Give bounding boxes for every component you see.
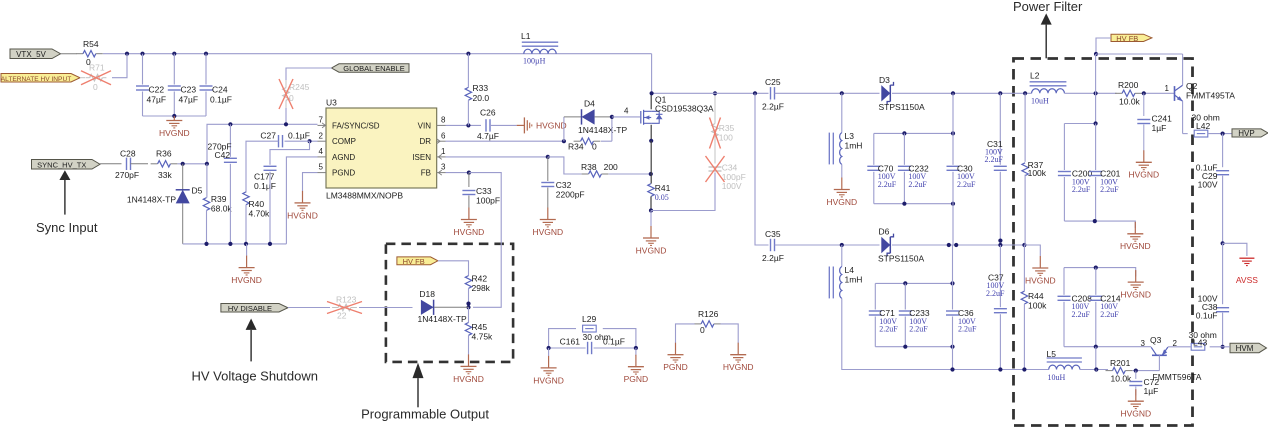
junction — [649, 139, 653, 143]
wire — [1095, 370, 1097, 371]
diode D18 1N4148X-TP — [421, 300, 434, 315]
svg-text:2.2uF: 2.2uF — [1100, 185, 1119, 194]
svg-text:270pF: 270pF — [115, 170, 139, 180]
svg-text:22: 22 — [337, 311, 347, 321]
svg-text:0: 0 — [592, 142, 597, 152]
wire — [183, 243, 287, 245]
svg-text:PGND: PGND — [332, 169, 355, 178]
wire — [650, 211, 652, 227]
wire — [1063, 302, 1065, 347]
junction — [649, 172, 653, 176]
ground HVGND — [1135, 270, 1137, 282]
pin 2 stub — [318, 140, 327, 142]
capacitor C232 — [898, 165, 911, 167]
wire — [1182, 101, 1184, 133]
pin 7 stub — [318, 124, 327, 126]
svg-text:10uH: 10uH — [1031, 97, 1049, 106]
svg-text:C241: C241 — [1152, 114, 1173, 124]
svg-text:3: 3 — [1141, 339, 1146, 348]
capacitor C28 — [126, 158, 128, 170]
svg-text:R41: R41 — [655, 183, 671, 193]
inductor L4 — [840, 267, 842, 299]
svg-text:HV Voltage Shutdown: HV Voltage Shutdown — [192, 369, 318, 384]
svg-text:C177: C177 — [254, 172, 275, 182]
junction — [172, 114, 176, 118]
wire — [874, 203, 953, 205]
wire — [1064, 346, 1151, 348]
svg-text:STPS1150A: STPS1150A — [879, 102, 925, 112]
svg-text:HVGND: HVGND — [532, 227, 563, 237]
junction — [950, 281, 954, 285]
port HV FB (prog) — [397, 257, 438, 265]
transistor Q3 FMMT596TA — [1152, 354, 1167, 356]
capacitor C241 — [1143, 93, 1145, 116]
svg-text:HVGND: HVGND — [826, 197, 857, 207]
svg-text:C33: C33 — [476, 186, 492, 196]
svg-text:HVGND: HVGND — [231, 275, 262, 285]
junction — [546, 155, 550, 159]
capacitor C71 — [869, 310, 882, 312]
wire — [103, 53, 652, 55]
junction — [1221, 345, 1225, 349]
svg-text:0.1µF: 0.1µF — [288, 131, 310, 141]
svg-text:L3: L3 — [845, 131, 855, 141]
svg-text:FB: FB — [421, 169, 431, 178]
wire — [142, 54, 144, 85]
svg-text:0.1µF: 0.1µF — [603, 337, 625, 347]
inductor L29 (ferrite bead) — [583, 325, 597, 332]
junction — [547, 346, 551, 350]
svg-text:0.1uF: 0.1uF — [1196, 311, 1218, 321]
svg-text:5: 5 — [319, 163, 324, 172]
svg-text:1µF: 1µF — [1152, 123, 1167, 133]
wire — [875, 282, 952, 284]
ground HVGND — [1143, 150, 1145, 162]
svg-text:2.2uF: 2.2uF — [985, 155, 1004, 164]
wire — [1064, 92, 1116, 94]
svg-text:4.70k: 4.70k — [249, 209, 271, 219]
capacitor C32 — [547, 157, 549, 181]
pin 3 stub — [437, 172, 446, 174]
svg-text:HVGND: HVGND — [1120, 409, 1151, 419]
svg-text:HVGND: HVGND — [454, 227, 485, 237]
svg-text:2.2uF: 2.2uF — [879, 325, 898, 334]
svg-text:R35: R35 — [719, 123, 735, 133]
wire — [650, 125, 652, 141]
svg-text:LM3488MMX/NOPB: LM3488MMX/NOPB — [326, 191, 403, 201]
diode D4 1N4148X-TP — [582, 109, 595, 124]
junction — [902, 202, 906, 206]
wire — [285, 140, 310, 142]
svg-text:C24: C24 — [212, 85, 228, 95]
wire — [611, 117, 613, 141]
wire — [1208, 133, 1232, 135]
wire — [651, 54, 653, 94]
wire — [1063, 177, 1065, 221]
wire — [904, 283, 906, 309]
svg-text:C32: C32 — [556, 180, 572, 190]
junction — [1094, 91, 1098, 95]
wire — [131, 163, 149, 165]
port HV FB — [1111, 34, 1152, 41]
svg-text:C42: C42 — [215, 150, 231, 160]
svg-text:Q2: Q2 — [1186, 81, 1198, 91]
wire — [652, 92, 769, 94]
wire — [1132, 370, 1159, 372]
svg-text:100V: 100V — [722, 181, 742, 191]
junction — [902, 131, 906, 135]
port HVM — [1230, 343, 1267, 353]
svg-text:C27: C27 — [260, 131, 276, 141]
wire — [468, 196, 470, 208]
svg-text:10.0k: 10.0k — [1119, 97, 1141, 107]
wire — [999, 245, 1001, 307]
svg-text:1N4148X-TP: 1N4148X-TP — [578, 125, 627, 135]
svg-text:1mH: 1mH — [845, 275, 863, 285]
capacitor C35 — [770, 239, 772, 251]
ground PGND — [675, 343, 677, 355]
junction — [998, 367, 1002, 371]
wire — [1095, 302, 1097, 347]
svg-text:1mH: 1mH — [845, 141, 863, 151]
svg-text:HVGND: HVGND — [723, 362, 754, 372]
capacitor C31 — [994, 165, 1007, 167]
wire — [229, 124, 231, 157]
wire — [720, 324, 738, 343]
junction — [998, 243, 1002, 247]
wire — [904, 317, 906, 347]
junction — [1094, 266, 1098, 270]
svg-text:4.75k: 4.75k — [472, 332, 494, 342]
svg-text:298k: 298k — [472, 283, 491, 293]
svg-text:10uH: 10uH — [1048, 373, 1066, 382]
junction — [1221, 241, 1225, 245]
wire — [1222, 134, 1224, 168]
svg-text:HVGND: HVGND — [636, 245, 667, 255]
svg-text:R54: R54 — [83, 39, 99, 49]
Power Filter annotation arrow — [1041, 13, 1052, 24]
junction — [951, 131, 955, 135]
capacitor C34 (DNP) — [709, 166, 722, 168]
wire — [601, 140, 612, 142]
junction — [840, 243, 844, 247]
wire — [490, 124, 517, 126]
wire — [100, 163, 122, 165]
svg-text:L2: L2 — [1030, 71, 1040, 81]
wire — [1142, 92, 1174, 94]
wire — [841, 164, 843, 177]
ground HVGND — [1135, 389, 1137, 401]
transistor Q2 FMMT495TA — [1174, 86, 1176, 101]
junction — [649, 208, 653, 212]
wire — [359, 307, 413, 309]
wire — [1168, 346, 1191, 348]
svg-text:D3: D3 — [879, 75, 890, 85]
junction — [903, 345, 907, 349]
pin 4 stub — [318, 156, 327, 158]
svg-text:2: 2 — [1173, 339, 1178, 348]
capacitor C233 — [899, 310, 912, 312]
resistor R38 — [582, 173, 589, 175]
resistor R126 — [694, 323, 701, 325]
svg-text:R200: R200 — [1118, 80, 1139, 90]
junction — [228, 242, 232, 246]
wire — [594, 347, 636, 349]
svg-text:2.2uF: 2.2uF — [878, 180, 897, 189]
wire — [468, 335, 470, 354]
svg-text:2.2uF: 2.2uF — [908, 180, 927, 189]
wire — [1023, 304, 1025, 370]
capacitor C208 — [1058, 295, 1071, 297]
svg-text:0: 0 — [700, 325, 705, 335]
wire — [548, 348, 550, 356]
wire — [269, 172, 271, 244]
Sync Input annotation arrow — [59, 170, 70, 180]
transistor Q1 CSD19538Q3A — [640, 111, 642, 124]
svg-text:R245: R245 — [289, 82, 310, 92]
junction — [950, 367, 954, 371]
junction — [467, 171, 471, 175]
wire — [650, 141, 652, 184]
wire — [446, 156, 548, 158]
svg-text:HVM: HVM — [1236, 344, 1254, 353]
wire — [142, 92, 144, 117]
svg-text:HV FB: HV FB — [403, 257, 425, 266]
wire — [903, 172, 905, 204]
resistor R245 (DNP) — [283, 88, 289, 101]
wire — [1095, 124, 1097, 171]
junction — [610, 115, 614, 119]
capacitor C200 — [1058, 171, 1071, 173]
capacitor C72 — [1135, 371, 1137, 379]
wire — [182, 164, 184, 190]
wire — [1096, 38, 1111, 54]
svg-text:100k: 100k — [1028, 168, 1047, 178]
wire — [173, 92, 175, 117]
svg-text:100µH: 100µH — [523, 57, 546, 66]
svg-text:L4: L4 — [845, 265, 855, 275]
wire — [1222, 313, 1224, 347]
ground HVGND — [548, 356, 550, 368]
svg-text:C35: C35 — [765, 229, 781, 239]
capacitor C22 — [136, 85, 149, 87]
junction — [903, 281, 907, 285]
inductor L43 (ferrite bead) — [1191, 343, 1205, 350]
ground HVGND — [841, 178, 843, 190]
svg-text:68.0k: 68.0k — [211, 204, 233, 214]
svg-text:R44: R44 — [1028, 291, 1044, 301]
svg-text:4: 4 — [624, 107, 629, 116]
capacitor C36 — [946, 310, 959, 312]
wire — [270, 141, 310, 165]
junction — [181, 162, 185, 166]
svg-text:Q3: Q3 — [1150, 335, 1162, 345]
wire — [1063, 268, 1065, 295]
junction — [1022, 367, 1026, 371]
svg-text:R33: R33 — [473, 83, 489, 93]
wire — [952, 172, 954, 245]
junction — [1093, 219, 1097, 223]
wire — [229, 164, 231, 244]
svg-text:L43: L43 — [1193, 338, 1207, 348]
svg-text:R40: R40 — [249, 199, 265, 209]
resistor R71 (DNP) — [80, 77, 85, 79]
junction — [172, 52, 176, 56]
wire — [1080, 369, 1108, 371]
svg-text:1µF: 1µF — [1144, 386, 1159, 396]
wire — [635, 348, 637, 356]
svg-text:HVP: HVP — [1238, 129, 1254, 138]
svg-text:HV DISABLE: HV DISABLE — [228, 304, 272, 313]
pin 1 stub — [437, 156, 446, 158]
HV Voltage Shutdown annotation arrow — [246, 319, 257, 330]
svg-text:AVSS: AVSS — [1236, 275, 1258, 285]
wire — [1024, 175, 1026, 245]
wire — [207, 124, 318, 164]
wire — [286, 68, 332, 80]
resistor R45 — [468, 307, 470, 322]
wire — [595, 116, 612, 118]
diode D3 STPS1150A — [880, 85, 893, 103]
wire — [874, 132, 953, 134]
wire — [714, 136, 716, 163]
capacitor C27 — [278, 135, 280, 147]
junction — [951, 91, 955, 95]
resistor R39 — [203, 198, 209, 211]
resistor R123 (DNP) — [332, 307, 338, 309]
ground HVGND — [173, 116, 175, 121]
wire — [286, 157, 317, 244]
svg-text:R36: R36 — [156, 149, 172, 159]
svg-text:Power Filter: Power Filter — [1013, 0, 1083, 14]
svg-text:2200pF: 2200pF — [556, 190, 585, 200]
svg-text:L5: L5 — [1047, 349, 1057, 359]
svg-text:2.2uF: 2.2uF — [1072, 310, 1091, 319]
ground HVGND (rotated) — [517, 124, 525, 126]
svg-text:2.2uF: 2.2uF — [1072, 185, 1091, 194]
wire — [1158, 355, 1160, 370]
svg-text:D18: D18 — [419, 289, 435, 299]
wire — [1095, 347, 1097, 371]
wire — [205, 92, 207, 117]
svg-text:C34: C34 — [722, 163, 738, 173]
wire — [446, 172, 469, 174]
wire — [1024, 245, 1040, 256]
svg-text:47µF: 47µF — [179, 95, 199, 105]
junction — [840, 91, 844, 95]
svg-text:R201: R201 — [1110, 358, 1131, 368]
svg-text:FA/SYNC/SD: FA/SYNC/SD — [332, 121, 380, 130]
svg-text:HVGND: HVGND — [1120, 290, 1151, 300]
wire — [1064, 268, 1136, 277]
svg-text:10.0k: 10.0k — [1111, 374, 1133, 384]
pin 6 stub — [437, 140, 446, 142]
Power Filter section dashed box — [1014, 59, 1193, 426]
inductor L1 — [524, 49, 556, 54]
ground HVGND — [468, 208, 470, 220]
svg-text:47µF: 47µF — [147, 95, 167, 105]
svg-text:1: 1 — [1165, 84, 1170, 93]
capacitor C42 — [224, 157, 237, 159]
ground HVGND — [302, 191, 304, 203]
wire — [549, 347, 586, 349]
svg-text:R126: R126 — [698, 309, 719, 319]
svg-text:0.05: 0.05 — [655, 193, 669, 202]
svg-text:0: 0 — [93, 82, 98, 92]
wire — [548, 157, 582, 174]
capacitor C177 — [264, 165, 277, 167]
svg-text:FMMT495TA: FMMT495TA — [1186, 91, 1235, 101]
junction — [998, 239, 1002, 243]
wire — [1210, 346, 1230, 348]
wire — [469, 173, 501, 308]
ground HVGND — [468, 354, 470, 366]
wire — [205, 54, 207, 85]
svg-text:6: 6 — [441, 131, 446, 140]
wire — [873, 133, 875, 164]
resistor R41 — [648, 184, 654, 197]
wire — [468, 288, 470, 307]
port SYNC_HV_TX — [32, 160, 101, 170]
junction — [562, 139, 566, 143]
wire — [1064, 123, 1095, 125]
svg-text:100V: 100V — [1198, 180, 1218, 190]
svg-text:HVGND: HVGND — [536, 121, 567, 131]
svg-text:C25: C25 — [765, 77, 781, 87]
pin 5 stub — [318, 172, 327, 174]
svg-text:0.1µF: 0.1µF — [254, 181, 276, 191]
wire — [603, 329, 636, 348]
junction — [1094, 52, 1098, 56]
resistor R201 — [1106, 370, 1113, 372]
svg-text:R71: R71 — [89, 63, 105, 73]
ground HVGND — [1039, 256, 1041, 268]
svg-text:100k: 100k — [1028, 301, 1047, 311]
junction — [650, 91, 654, 95]
svg-text:VIN: VIN — [418, 121, 432, 130]
junction — [1134, 369, 1138, 373]
junction — [466, 302, 470, 306]
wire — [842, 298, 1049, 369]
svg-text:HVGND: HVGND — [453, 374, 484, 384]
svg-text:R123: R123 — [336, 295, 357, 305]
capacitor C23 — [168, 85, 181, 87]
resistor R33 — [467, 54, 469, 88]
wire — [755, 93, 769, 245]
wire — [206, 210, 208, 244]
ground PGND — [635, 355, 637, 367]
svg-text:1N4148X-TP: 1N4148X-TP — [127, 195, 176, 205]
junction — [1094, 345, 1098, 349]
svg-text:8: 8 — [441, 116, 446, 125]
wire — [650, 93, 652, 109]
wire — [999, 93, 1001, 165]
svg-text:HVGND: HVGND — [533, 375, 564, 385]
junction — [204, 242, 208, 246]
svg-text:2.2uF: 2.2uF — [909, 325, 928, 334]
wire — [285, 108, 287, 124]
wire — [609, 173, 651, 175]
capacitor C201 — [1089, 171, 1102, 173]
op-amp U3 LM3488MMX/NOPB — [326, 108, 437, 188]
resistor R200 — [1115, 92, 1122, 94]
wire — [61, 53, 77, 55]
wire — [1223, 243, 1247, 256]
capacitor C30 — [947, 165, 960, 167]
wire — [651, 173, 715, 211]
svg-text:AGND: AGND — [332, 153, 355, 162]
wire — [438, 261, 469, 276]
